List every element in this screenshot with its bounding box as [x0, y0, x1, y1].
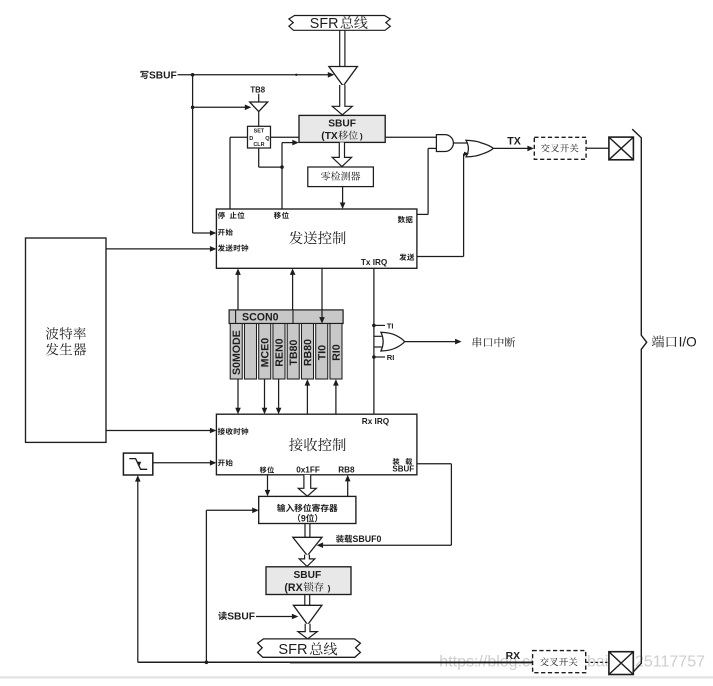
label start (开始) RX [218, 459, 233, 466]
wire: write SBUF to write buffer [178, 74, 330, 76]
label start (开始) [218, 229, 233, 236]
wire: SCON S0MODE to TX control [237, 273, 239, 310]
svg-text:): ) [324, 583, 330, 593]
wire: Tx IRQ / Rx IRQ interrupt line [373, 268, 375, 414]
edge detector box [123, 453, 152, 475]
svg-text:SBUF: SBUF [294, 570, 322, 581]
wire: OR gate to serial interrupt [405, 341, 458, 343]
wire: flip-flop Q to SBUF TX [271, 136, 300, 138]
label load SBUF0 (装载SBUF0) [336, 535, 352, 543]
bus arrow: read buffer to SFR bus [298, 624, 317, 639]
wire: TB8 label to buffer [258, 94, 260, 102]
svg-text:RX: RX [506, 651, 521, 662]
svg-text:CLR: CLR [253, 142, 264, 148]
svg-text:RI: RI [387, 353, 395, 362]
junction dot on write-SBUF wire [191, 73, 195, 77]
register SBUF (RX latch) [266, 567, 351, 595]
wire: REN0 to RX control [278, 379, 280, 410]
TX control box (发送控制) [216, 209, 417, 268]
svg-text:Q: Q [265, 136, 270, 142]
AND gate U1 [436, 135, 453, 152]
SCON0 bit cell RB80 [301, 324, 313, 380]
label shift (移位) RX [260, 466, 274, 473]
label: write SBUF (写SBUF) [140, 71, 148, 79]
bus arrow: write buffer to SBUF TX [332, 85, 352, 115]
page bottom rule [0, 676, 713, 678]
wire: AND output to OR gate [453, 142, 469, 144]
SFR bus banner (top) [289, 16, 390, 31]
SCON0 bit cell MCE0 [259, 324, 271, 380]
baud rate generator box (波特率发生器) [26, 238, 107, 442]
label RX clock (接收时钟) [218, 428, 248, 435]
wire: from bottom RX line into register [205, 510, 207, 662]
svg-text:I/O: I/O [679, 335, 697, 350]
wire: flip-flop D input from stop-bit line [230, 136, 248, 138]
wire: SCON to TX control (second) [292, 273, 294, 310]
wire: RX shift to register [267, 475, 269, 492]
svg-text:SFR: SFR [310, 16, 339, 32]
port pin top (X box) [609, 137, 634, 160]
read buffer triangle [293, 605, 322, 625]
wire: to TB8 buffer [193, 106, 247, 108]
svg-text:(RX: (RX [284, 582, 302, 594]
wire: RX line up into edge detector [137, 479, 139, 662]
wire: shift line up into SBUF TX [281, 143, 283, 168]
write buffer triangle (SBUF write driver) [329, 67, 358, 87]
svg-text:SBUF0: SBUF0 [353, 534, 382, 544]
junction dot TB8 branch [191, 106, 195, 110]
bus wire: register to load buffer (double line) [304, 524, 306, 538]
wire: to TX control start [193, 232, 212, 234]
svg-text:Tx IRQ: Tx IRQ [361, 258, 388, 267]
wire: SBUF TX serial out to AND gate [385, 136, 436, 138]
falling edge symbol [129, 459, 147, 470]
RX control box (接收控制) [216, 414, 417, 475]
junction dot (small) near buffer [295, 74, 297, 76]
svg-text:SBUF: SBUF [392, 465, 414, 474]
wire: crossbar to port pin [587, 147, 609, 149]
port pin bottom (X box) [609, 652, 633, 675]
wire: register RB8 up to RX control [347, 479, 349, 496]
SCON0 bit cell TB80 [287, 324, 299, 380]
svg-text:SBUF: SBUF [149, 70, 177, 81]
svg-text:SET: SET [254, 129, 265, 135]
svg-text:TB8: TB8 [250, 86, 265, 95]
label serial interrupt (串口中断) [473, 337, 515, 347]
wire: flip-flop CLR to shift line [258, 148, 260, 167]
crossbar box top (交叉开关) [534, 137, 586, 159]
svg-text:SFR: SFR [278, 642, 307, 658]
svg-text:(TX: (TX [321, 131, 338, 142]
svg-text:SBUF: SBUF [227, 611, 255, 622]
TB8 buffer triangle [250, 102, 268, 112]
label shift (移位) [274, 212, 289, 219]
junction dot RX line [205, 661, 209, 665]
SCON0 bit cell TI0 [316, 324, 328, 380]
OR gate U3 (TX out) [466, 140, 493, 157]
svg-text:): ) [358, 131, 363, 141]
svg-text:SCON0: SCON0 [242, 311, 279, 323]
stub + label TI [374, 324, 385, 326]
OR gate U2 (interrupt) [374, 335, 382, 337]
port I/O brace [632, 129, 647, 673]
svg-text:D: D [249, 136, 253, 142]
bus arrow: 0x1FF hollow arrow [298, 475, 316, 496]
title TX control (发送控制) [289, 231, 345, 244]
wire: read SBUF to read buffer [256, 616, 294, 618]
svg-text:RB8: RB8 [338, 465, 355, 474]
wire: MCE0 to RX control [264, 379, 266, 410]
register SBUF (TX shift) [299, 115, 385, 142]
wire: RX control to RI0 bit [335, 383, 337, 414]
wire: edge detector to RX start [153, 462, 212, 464]
crossbar box bottom (交叉开关) [533, 651, 586, 673]
SCON0 bit cell RI0 [330, 324, 342, 380]
wire: RX control to RB80 bit [306, 383, 308, 414]
svg-text:TI: TI [387, 321, 394, 330]
wire: AND bottom input from data [417, 213, 428, 215]
label read SBUF (读SBUF) [218, 612, 227, 621]
bus arrow: load buffer to SBUF RX [299, 555, 315, 567]
wire: crossbar to port pin (dashed) [586, 661, 609, 663]
SFR bus banner (bottom) [258, 639, 361, 657]
svg-text:SBUF: SBUF [328, 118, 356, 129]
wire: zero detector to TX control [342, 187, 344, 205]
SCON0 bit cell REN0 [273, 324, 285, 380]
svg-text:0x1FF: 0x1FF [296, 465, 320, 474]
junction dot RI [372, 355, 376, 359]
wire: load SBUF from RX control [417, 463, 452, 465]
label load SBUF (装载 SBUF) [393, 458, 413, 465]
svg-text:TX: TX [507, 136, 521, 148]
wire: TX control to TI0 bit [321, 268, 323, 319]
label port I/O (端口 I/O) [652, 335, 677, 347]
SCON0 register header [229, 310, 343, 324]
load buffer triangle [293, 537, 322, 555]
wire: buffer to flip-flop [258, 112, 260, 127]
bus arrow: SBUF TX to zero detector [332, 142, 351, 166]
wire: SFR bus to write buffer (double line) [339, 30, 341, 66]
label stop bit (停止位) [218, 212, 245, 219]
stub + label RI [374, 356, 385, 358]
svg-text:Rx IRQ: Rx IRQ [362, 417, 390, 426]
wire: send enable to OR gate [417, 256, 464, 258]
junction dot TI [372, 324, 376, 328]
input shift register box (输入移位寄存器) [259, 496, 356, 523]
bus wire: SBUF RX to read buffer (double line) [304, 595, 306, 606]
wire: RX line (bottom route) [138, 661, 533, 663]
wire: branch down from write SBUF [192, 75, 194, 233]
svg-text:9: 9 [301, 513, 306, 523]
wire: S0MODE to RX control [237, 379, 239, 410]
wire: OR output TX [493, 147, 529, 149]
junction dot shift line [280, 165, 284, 169]
label TX clock (发送时钟) [218, 244, 249, 251]
wire: baud to RX clock [106, 430, 212, 432]
zero detector box [308, 167, 374, 187]
wire: baud to TX clock [106, 248, 212, 250]
wire: RX line darker segment [290, 661, 533, 663]
flip-flop TB8 (SET/CLR latch) [248, 126, 271, 148]
SCON0 bit cell S0MODE [230, 324, 242, 380]
SCON0 bit cell (blank) [244, 324, 256, 380]
label data (数据) [398, 216, 413, 223]
label send (发送) [399, 254, 414, 261]
title RX control (接收控制) [289, 438, 345, 451]
wire: shift line down to TX control [281, 167, 283, 209]
